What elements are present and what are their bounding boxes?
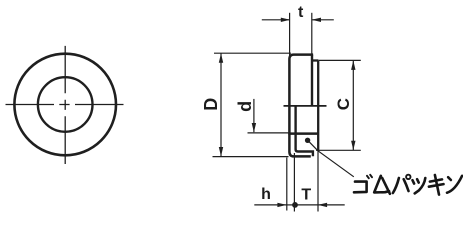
svg-text:C: C (334, 98, 353, 110)
centerline vertical (front view) (64, 46, 66, 164)
dimension h/T shared dot (292, 202, 298, 208)
dimension C extension bottom (316, 149, 361, 151)
washer body outline (side view) (289, 55, 313, 157)
dimension h/T shared extension (293, 153, 295, 212)
dimension D line (220, 53, 222, 156)
katakana KI (429, 175, 444, 195)
rubber lip step (section) (296, 106, 313, 156)
dimension D extension bottom (213, 156, 289, 158)
axis centerline (side view) (284, 105, 327, 107)
dimension h line with arrow (254, 204, 286, 206)
dimension T line with arrow (295, 204, 345, 206)
outer circle D (front view) (14, 54, 116, 156)
dimension d line with arrow (253, 99, 255, 132)
rubber packing right edge (317, 61, 319, 152)
katakana GO (354, 175, 372, 193)
rubber packing top edge (313, 59, 319, 61)
katakana small TSU (413, 178, 426, 193)
hole edge line (section) (288, 132, 318, 135)
svg-text:T: T (301, 187, 311, 204)
inner circle d (front view) (38, 77, 93, 132)
katakana N (447, 176, 462, 193)
dimension C extension top (319, 59, 361, 61)
leader dot on rubber packing (305, 138, 310, 143)
svg-text:h: h (261, 186, 271, 203)
label gomu-packing (katakana, hand drawn) (354, 175, 462, 195)
centerline horizontal (front view) (6, 104, 124, 106)
dimension t extension left (289, 13, 291, 56)
dimension t extension right (311, 13, 313, 54)
katakana PA (393, 175, 411, 193)
leader line to label (309, 141, 354, 176)
dimension t line left with arrow (262, 19, 290, 21)
dimension t line right with arrow (312, 19, 334, 21)
svg-text:D: D (201, 98, 221, 111)
dimension C line (352, 60, 354, 150)
dimension T extension right (317, 151, 319, 212)
dimension D extension top (214, 52, 291, 54)
svg-text:t: t (298, 4, 304, 21)
washer right face edge (311, 55, 313, 107)
svg-text:d: d (235, 101, 255, 112)
dimension h extension left (286, 158, 288, 211)
dimension d extension (248, 132, 290, 134)
katakana MU (374, 176, 390, 194)
